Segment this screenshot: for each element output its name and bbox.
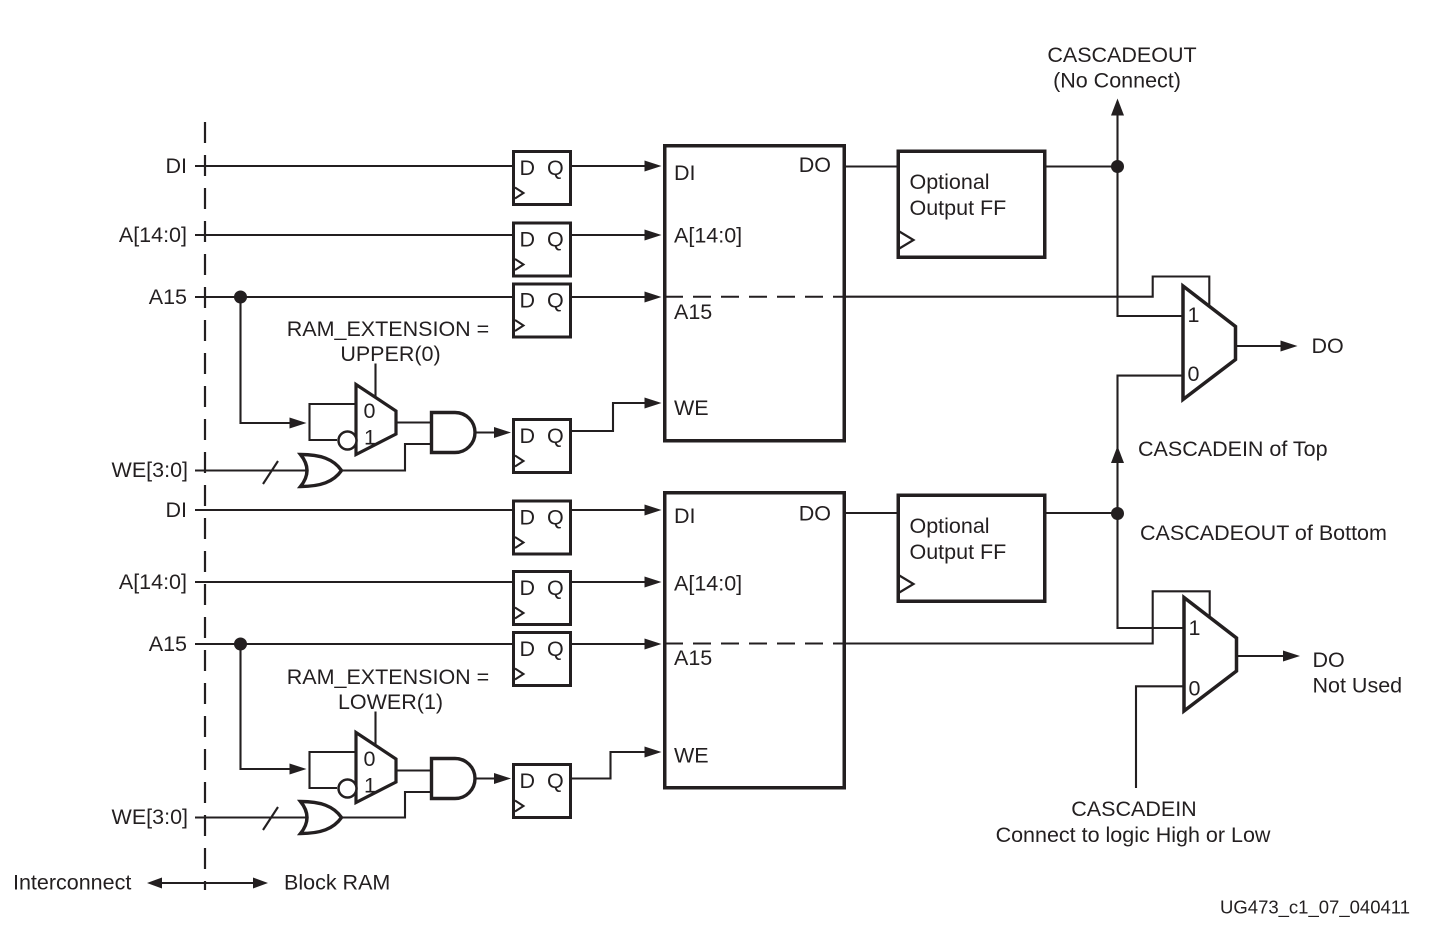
pin A[14:0] (RAM bottom) [674,572,742,596]
wire A15 select detour (bottom) [846,591,1210,643]
svg-text:CASCADEOUT: CASCADEOUT [1047,43,1196,67]
svg-text:CASCADEOUT of Bottom: CASCADEOUT of Bottom [1140,521,1387,545]
output mux 2:1 (bottom DO) [1184,598,1237,712]
wire A[14:0] input (top) [195,234,512,236]
svg-text:Optional: Optional [910,170,990,194]
label WE[3:0] (bottom input) [112,805,188,829]
wire OR to AND (bottom) [343,792,432,818]
svg-text:WE: WE [674,744,709,768]
bus slash WE[3:0] (bottom) [263,807,278,830]
OR gate (bottom) [301,802,342,834]
svg-text:Q: Q [547,576,564,600]
block RAM (bottom) [665,493,845,788]
wire mux input loop (top) [310,404,357,440]
label Block RAM [284,871,390,895]
pin WE (RAM top) [674,396,709,420]
wire FF3 to RAM A15 (top) with arrow [572,292,662,303]
wire WE[3:0] input (top) [195,469,307,471]
svg-text:Output FF: Output FF [910,196,1007,220]
svg-text:A15: A15 [149,632,187,656]
flip-flop FF2 (A[14:0] top) [514,223,571,276]
wire FF2 to RAM A[14:0] (top) with arrow [572,230,662,241]
OR gate (top) [301,455,342,487]
pin DO (RAM top) [799,153,831,177]
wire A15 select detour (top) [846,277,1209,308]
optional output FF (top) [898,151,1045,257]
node CASCADEOUT of Bottom junction [1111,507,1124,520]
wire Optional FF to cascade node (bottom) [1047,512,1118,514]
svg-text:Q: Q [547,637,564,661]
wire cascade node to mux input 1 (bottom) [1118,514,1185,629]
svg-text:A15: A15 [149,285,187,309]
wire cascade node to mux input 1 (top) [1118,167,1184,317]
wire select to small mux (bottom) [374,712,376,748]
svg-text:DO: DO [799,502,831,526]
wire small mux to AND (bottom) [396,769,432,771]
svg-text:Q: Q [547,424,564,448]
label RAM_EXTENSION = LOWER(1) [287,665,490,714]
mux 2:1 RAM_EXTENSION (top) [356,385,396,455]
double arrow interconnect/block RAM [147,878,268,889]
label mux inputs 0/1 (bottom) [364,747,376,798]
label CASCADEIN Connect to logic High or Low [996,797,1271,847]
svg-text:1: 1 [364,426,376,450]
svg-text:DO: DO [1312,334,1344,358]
pin A15 (RAM bottom) [674,646,712,670]
pin DO (RAM bottom) [799,502,831,526]
wire FF6 to RAM A15 (bottom) with arrow [572,639,662,650]
svg-text:DI: DI [166,498,188,522]
flip-flop FF6 (A15 bottom) [514,633,571,686]
node A15 junction (top) [234,291,247,304]
wire CASCADEOUT up with arrow [1111,99,1124,167]
label mux inputs 0/1 (top) [364,399,376,450]
svg-text:1: 1 [1189,616,1201,640]
bus slash WE[3:0] (top) [263,461,278,484]
block RAM (top) [665,146,845,441]
wire FF1 to RAM DI (top) with arrow [572,161,662,172]
svg-text:UG473_c1_07_040411: UG473_c1_07_040411 [1220,897,1410,919]
label CASCADEOUT of Bottom [1140,521,1387,545]
wire A15 down to small mux (top) with arrow [241,297,307,429]
label UG473_c1_07_040411 [1220,897,1410,919]
svg-text:A15: A15 [674,646,712,670]
svg-text:DI: DI [166,154,188,178]
svg-text:DO: DO [799,153,831,177]
svg-text:D: D [520,506,536,530]
label DI (top input) [166,154,188,178]
pin DI (RAM bottom) [674,504,696,528]
svg-text:D: D [520,637,536,661]
label DO Not Used (bottom) [1313,648,1403,698]
label DO (top) [1312,334,1344,358]
flip-flop FF3 (A15 top) [514,284,571,337]
node CASCADEOUT junction (top) [1111,160,1124,173]
svg-text:A[14:0]: A[14:0] [119,570,187,594]
wire RAM DO to Optional FF (top) [846,165,897,167]
wire DI input (top) [195,165,512,167]
svg-text:1: 1 [364,774,376,798]
dashed A15 boundary inside RAM (bottom) [665,643,844,645]
optional output FF (bottom) [898,495,1045,601]
svg-text:Output FF: Output FF [910,540,1007,564]
wire OR to AND (top) [343,444,432,471]
label A15 (top input) [149,285,187,309]
label CASCADEIN of Top [1138,437,1328,461]
output mux 2:1 (top DO) [1183,286,1236,400]
pin DI (RAM top) [674,161,696,185]
flip-flop FF WE (bottom) [514,765,571,818]
wire AND to FF WE (bottom) with arrow [475,773,511,784]
wire Optional FF to cascade node (top) [1047,165,1118,167]
svg-text:Not Used: Not Used [1313,674,1403,698]
wire FF WE to RAM WE (bottom) with arrow [572,747,662,779]
inverter bubble on input 1 (bottom mux) [339,780,357,798]
svg-text:Q: Q [547,769,564,793]
svg-text:DI: DI [674,504,696,528]
wire mux DO output (top) with arrow [1236,341,1298,352]
svg-text:0: 0 [1188,362,1200,386]
label A[14:0] (bottom input) [119,570,187,594]
svg-text:Q: Q [547,289,564,313]
wire FF4 to RAM DI (bottom) with arrow [572,505,662,516]
svg-text:RAM_EXTENSION =: RAM_EXTENSION = [287,317,490,341]
svg-text:D: D [520,228,536,252]
svg-text:0: 0 [1189,677,1201,701]
flip-flop FF4 (DI bottom) [514,501,571,554]
svg-text:D: D [520,769,536,793]
wire mux input 0 (bottom) to CASCADEIN [1136,686,1184,788]
wire A15 input (top) [195,296,512,298]
svg-text:A[14:0]: A[14:0] [674,224,742,248]
svg-text:WE[3:0]: WE[3:0] [112,805,188,829]
label Interconnect [13,871,131,895]
svg-text:Block RAM: Block RAM [284,871,390,895]
label mux 1/0 (bottom output mux) [1189,616,1201,701]
label CASCADEOUT (No Connect) [1047,43,1196,93]
svg-text:LOWER(1): LOWER(1) [338,690,443,714]
node A15 junction (bottom) [234,638,247,651]
svg-text:D: D [520,576,536,600]
svg-text:D: D [520,424,536,448]
svg-text:RAM_EXTENSION =: RAM_EXTENSION = [287,665,490,689]
wire A15 down to small mux (bottom) with arrow [241,644,307,775]
svg-text:A[14:0]: A[14:0] [119,223,187,247]
wire A15 input (bottom) [195,643,512,645]
svg-text:Q: Q [547,156,564,180]
label A15 (bottom input) [149,632,187,656]
AND gate (bottom) [432,759,476,799]
AND gate (top) [432,413,476,453]
svg-text:Connect to logic High or Low: Connect to logic High or Low [996,823,1271,847]
svg-text:0: 0 [364,747,376,771]
svg-text:A[14:0]: A[14:0] [674,572,742,596]
svg-text:D: D [520,156,536,180]
wire A[14:0] input (bottom) [195,581,512,583]
svg-text:DO: DO [1313,648,1345,672]
label DI (bottom input) [166,498,188,522]
svg-text:UPPER(0): UPPER(0) [340,342,440,366]
wire CASCADEIN of Top with arrow [1111,376,1183,513]
svg-text:A15: A15 [674,300,712,324]
flip-flop FF5 (A[14:0] bottom) [514,572,571,625]
svg-text:Q: Q [547,506,564,530]
pin A15 (RAM top) [674,300,712,324]
wire RAM DO to Optional FF (bottom) [846,512,897,514]
label RAM_EXTENSION = UPPER(0) [287,317,490,366]
svg-text:CASCADEIN of Top: CASCADEIN of Top [1138,437,1328,461]
svg-text:WE[3:0]: WE[3:0] [112,458,188,482]
svg-text:DI: DI [674,161,696,185]
svg-text:CASCADEIN: CASCADEIN [1071,797,1196,821]
wire FF5 to RAM A[14:0] (bottom) with arrow [572,577,662,588]
wire mux DO output (bottom) with arrow [1237,651,1301,662]
wire FF WE to RAM WE (top) with arrow [572,398,662,432]
wire small mux to AND (top) [396,421,432,423]
dashed A15 boundary inside RAM (top) [665,296,844,298]
mux 2:1 RAM_EXTENSION (bottom) [356,733,396,803]
flip-flop FF WE (top) [514,420,571,473]
wire select to small mux (top) [374,364,376,400]
svg-text:D: D [520,289,536,313]
wire DI input (bottom) [195,509,512,511]
svg-text:Q: Q [547,228,564,252]
label WE[3:0] (top input) [112,458,188,482]
wire WE[3:0] input (bottom) [195,816,307,818]
svg-text:Interconnect: Interconnect [13,871,131,895]
label A[14:0] (top input) [119,223,187,247]
label mux 1/0 (top output mux) [1188,303,1200,386]
svg-text:0: 0 [364,399,376,423]
pin A[14:0] (RAM top) [674,224,742,248]
flip-flop FF1 (DI top) [514,152,571,205]
dashed interconnect boundary line [204,122,206,890]
wire mux input loop (bottom) [310,752,357,788]
pin WE (RAM bottom) [674,744,709,768]
svg-text:(No Connect): (No Connect) [1053,69,1181,93]
svg-text:WE: WE [674,396,709,420]
svg-text:1: 1 [1188,303,1200,327]
wire AND to FF WE (top) with arrow [475,427,511,438]
inverter bubble on input 1 (top mux) [339,432,357,450]
svg-text:Optional: Optional [910,514,990,538]
